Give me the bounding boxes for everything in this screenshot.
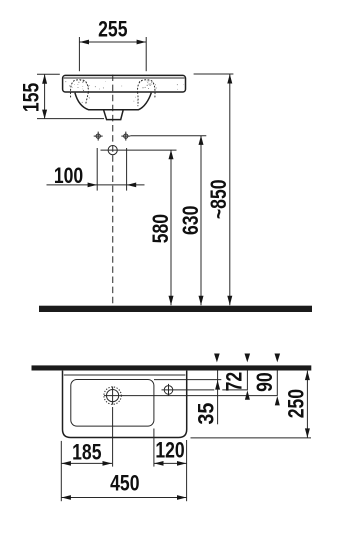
svg-text:580: 580: [149, 214, 173, 243]
floor bar: [39, 306, 312, 312]
dim 35 line: [217, 371, 219, 425]
basin front extension line: [191, 437, 312, 439]
svg-text:450: 450: [110, 472, 139, 496]
dim 255 text: [98, 18, 127, 42]
dotted overflow arch left: [70, 80, 88, 97]
basin rear edge line: [64, 374, 186, 376]
bowl silhouette (front): [75, 93, 151, 110]
dim 120 text: [155, 439, 184, 463]
extension line bowl right: [153, 429, 155, 467]
dim 155 extension bottom: [37, 118, 104, 120]
drain hole outer circle: [104, 387, 121, 404]
svg-text:72: 72: [223, 372, 247, 392]
dim 185 text: [72, 441, 101, 465]
dim 255 extension lines: [78, 37, 80, 71]
dim 630 line: [200, 136, 202, 306]
dotted overflow arch right: [138, 80, 156, 97]
faucet hole circle: [164, 386, 173, 395]
drain cross vertical: [112, 387, 114, 405]
dim 155 text: [20, 83, 44, 112]
dotted tail right: [137, 92, 139, 105]
dim 155 extension top: [37, 73, 60, 75]
dim 90 line: [276, 371, 278, 396]
dim 185 line: [61, 462, 112, 464]
dim 100 text: [54, 164, 83, 188]
dim 450 text: [110, 472, 139, 496]
ceramic stipple texture: [65, 80, 184, 103]
drain extension line down: [112, 407, 114, 467]
dim 72 text: [223, 372, 247, 392]
dim 100 leader and line: [47, 184, 145, 186]
extension line basin left: [60, 441, 62, 501]
dim 630 text: [179, 206, 203, 235]
wall reference arrow 2: [245, 354, 251, 363]
dim 100 extension lines: [96, 148, 98, 191]
svg-text:630: 630: [179, 206, 203, 235]
drain hole inner circle: [107, 390, 119, 402]
faucet horizontal line to dim 72: [162, 389, 215, 391]
wall reference arrow 3: [275, 354, 281, 363]
drain horizontal line to dim 90: [104, 395, 277, 397]
svg-text:~850: ~850: [207, 179, 231, 219]
bowl top extension line: [154, 379, 221, 381]
svg-text:155: 155: [20, 83, 44, 112]
dim 250 line: [306, 371, 308, 438]
dotted tail left: [86, 92, 89, 104]
dim 580 text: [149, 214, 173, 243]
extension line basin right: [186, 440, 188, 501]
dim 580 line: [170, 150, 172, 305]
dim 850 extension line: [194, 73, 234, 75]
svg-text:35: 35: [195, 402, 219, 424]
dim 120 line: [154, 462, 187, 464]
svg-text:185: 185: [72, 441, 101, 465]
dim 35 text: [195, 402, 219, 424]
wall reference arrow 1: [214, 354, 220, 363]
dim 155 line: [44, 74, 46, 119]
faucet cross vertical: [168, 384, 170, 396]
dim 450 line: [61, 497, 186, 499]
svg-text:90: 90: [253, 372, 277, 392]
mounting hole crosshair right: [121, 132, 130, 141]
center dashed line (front view): [112, 75, 114, 306]
dim 72 line: [246, 371, 248, 391]
drain stub (front): [104, 110, 123, 119]
dim 850 line: [229, 74, 231, 305]
dim 255 line: [79, 41, 146, 43]
dim 90 text: [253, 372, 277, 392]
inner bowl (plan): [71, 380, 154, 427]
rim inner line: [64, 77, 185, 79]
svg-text:120: 120: [155, 439, 184, 463]
washbasin rim (front): [63, 75, 186, 92]
dim ~850 text: [207, 179, 231, 219]
svg-text:255: 255: [98, 18, 127, 42]
trap circle horizontal line: [101, 149, 177, 151]
line from right crosshair to dim 630: [130, 135, 206, 137]
basin outline (plan): [63, 371, 187, 438]
mounting hole crosshair left: [94, 132, 103, 141]
svg-text:250: 250: [285, 389, 309, 418]
trap outlet circle: [108, 146, 117, 155]
wall bar: [32, 365, 312, 370]
dim 250 text: [285, 389, 309, 418]
